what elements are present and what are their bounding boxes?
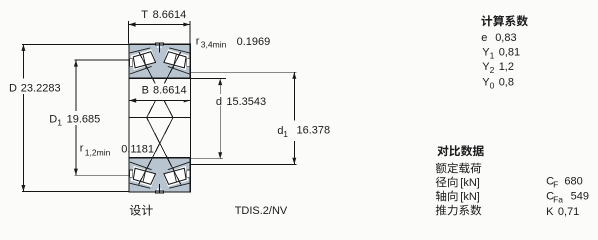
svg-text:1: 1 — [283, 129, 288, 139]
svg-text:0,71: 0,71 — [558, 206, 579, 218]
dim D1 line — [75, 60, 77, 111]
svg-text:Fa: Fa — [553, 195, 563, 205]
svg-text:23.2283: 23.2283 — [21, 83, 61, 95]
svg-text:8.6614: 8.6614 — [153, 9, 187, 21]
dim T extension lines — [128, 21, 130, 43]
top half section — [129, 43, 190, 78]
svg-text:T: T — [141, 9, 148, 21]
contact angle line right pair — [147, 52, 181, 185]
svg-text:15.3543: 15.3543 — [226, 96, 266, 108]
svg-text:1,2min: 1,2min — [85, 147, 111, 157]
header duibishuju (comparison data) — [437, 145, 483, 156]
bearing axis line — [129, 117, 190, 119]
svg-text:3,4min: 3,4min — [201, 39, 227, 49]
dim d1 line — [293, 72, 295, 120]
svg-text:1: 1 — [490, 50, 495, 60]
svg-text:e: e — [481, 32, 487, 44]
svg-text:D: D — [49, 113, 57, 125]
svg-text:[kN]: [kN] — [460, 177, 480, 189]
svg-text:16.378: 16.378 — [297, 125, 331, 137]
label B 8.6614 backing — [140, 84, 188, 100]
svg-text:0: 0 — [490, 81, 495, 91]
svg-text:19.685: 19.685 — [67, 113, 101, 125]
svg-text:549: 549 — [571, 191, 589, 203]
svg-text:TDIS.2/NV: TDIS.2/NV — [235, 205, 288, 217]
contact angle line left pair — [139, 52, 173, 185]
dim T line — [129, 24, 190, 26]
dim B line — [129, 100, 190, 102]
svg-text:[kN]: [kN] — [460, 191, 480, 203]
svg-text:r: r — [196, 35, 200, 47]
bottom half section (mirror) — [129, 158, 190, 193]
dim D extension lines — [22, 43, 129, 45]
svg-text:K: K — [546, 206, 554, 218]
svg-text:2: 2 — [490, 65, 495, 75]
svg-text:B: B — [142, 84, 149, 96]
svg-text:0,81: 0,81 — [499, 46, 520, 58]
dim D1 extension lines — [74, 59, 129, 61]
svg-text:680: 680 — [564, 176, 582, 188]
svg-text:1,2: 1,2 — [499, 61, 514, 73]
svg-text:D: D — [9, 83, 17, 95]
label sheji (design) — [130, 205, 153, 216]
svg-text:0,8: 0,8 — [499, 77, 514, 89]
dim d line — [219, 79, 221, 94]
svg-text:1: 1 — [57, 117, 62, 127]
dim d1 extension lines — [191, 71, 297, 73]
row tuilixishu (thrust factor) — [436, 205, 482, 216]
svg-text:F: F — [553, 180, 558, 190]
row edingzaihe (rated load) — [436, 163, 481, 174]
svg-text:0.1181: 0.1181 — [121, 144, 154, 156]
svg-text:r: r — [80, 142, 84, 154]
svg-text:d: d — [216, 96, 222, 108]
svg-text:8.6614: 8.6614 — [153, 84, 187, 96]
row jingxiang [kN] (radial) — [436, 177, 458, 188]
row zhouxiang [kN] (axial) — [436, 191, 458, 202]
svg-text:0,83: 0,83 — [495, 32, 516, 44]
dim d extension lines — [191, 78, 226, 80]
header jisuanxishu (calculation factors) — [481, 15, 528, 26]
svg-text:0.1969: 0.1969 — [237, 36, 271, 48]
bearing side face lines — [128, 78, 130, 158]
dim D line — [22, 44, 24, 78]
